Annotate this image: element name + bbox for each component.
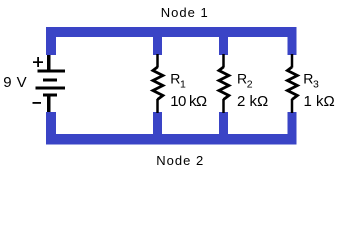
svg-text:Node 1: Node 1 bbox=[161, 5, 209, 20]
svg-text:R: R bbox=[170, 70, 180, 86]
svg-text:1 kΩ: 1 kΩ bbox=[304, 93, 335, 110]
svg-text:3: 3 bbox=[313, 79, 319, 91]
svg-text:9 V: 9 V bbox=[3, 74, 27, 91]
svg-text:R: R bbox=[237, 70, 247, 86]
svg-text:10 kΩ: 10 kΩ bbox=[170, 93, 207, 110]
svg-text:R: R bbox=[303, 70, 313, 86]
svg-text:Node 2: Node 2 bbox=[156, 153, 204, 168]
svg-text:1: 1 bbox=[180, 79, 186, 91]
svg-text:2 kΩ: 2 kΩ bbox=[237, 93, 268, 110]
svg-text:2: 2 bbox=[247, 79, 253, 91]
